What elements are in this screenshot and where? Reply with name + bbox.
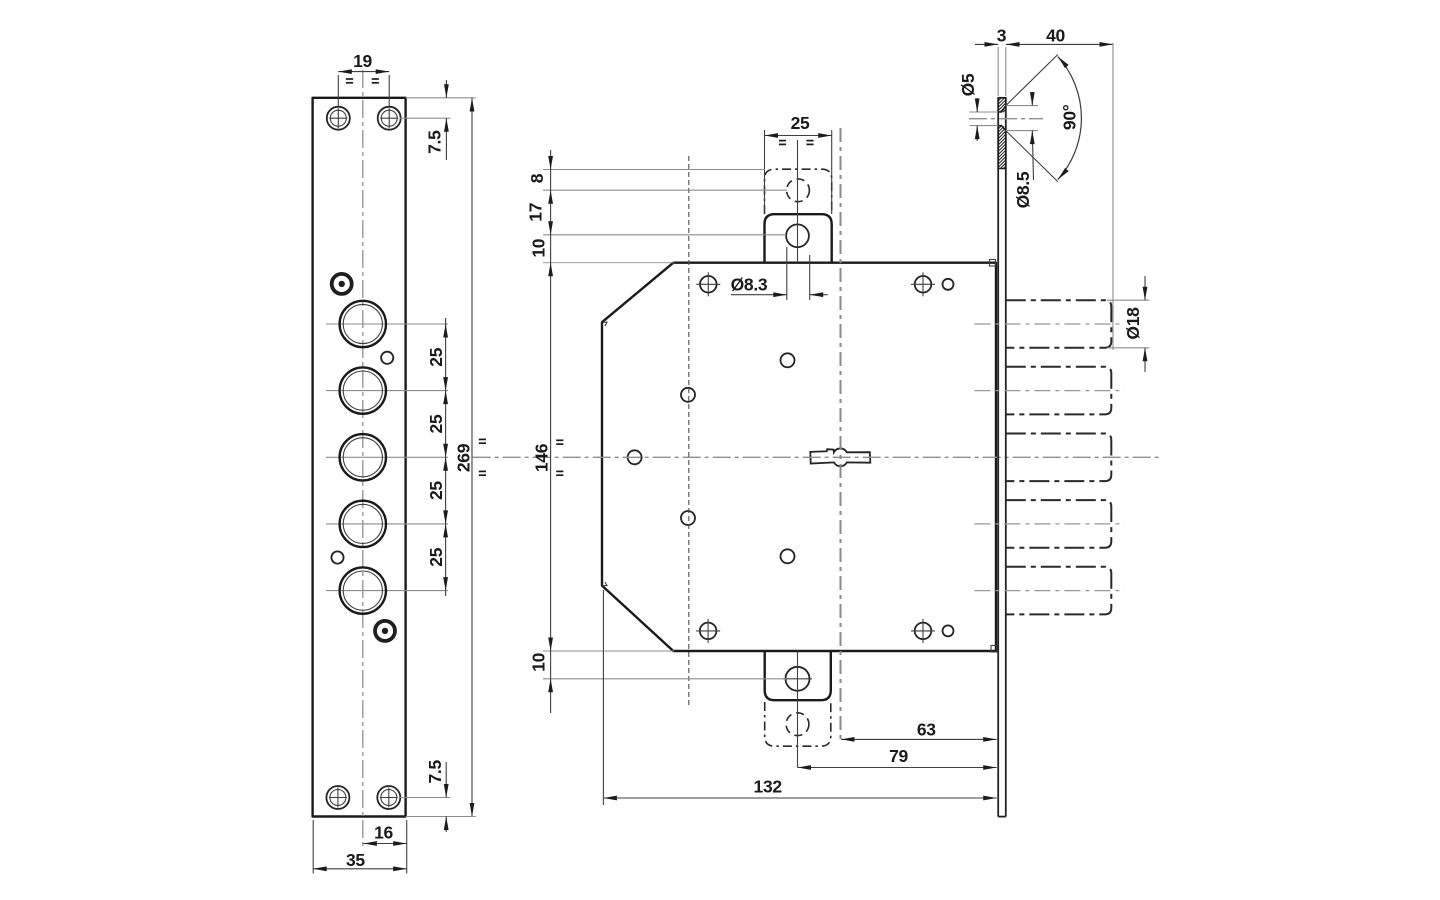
double-bitted key hole: [810, 448, 870, 466]
dimension 269: [453, 98, 486, 817]
screw hole top-left: [327, 107, 350, 130]
screw hole bottom-left: [326, 786, 349, 809]
top fixing tab solid: [765, 214, 832, 263]
svg-text:10: 10: [529, 238, 549, 257]
bottom phantom tab hole: [786, 713, 809, 736]
small hole top right: [943, 279, 954, 290]
pin hole with dot lower: [375, 621, 395, 641]
countersink section lower hatch: [998, 126, 1006, 169]
svg-text:25: 25: [426, 547, 446, 566]
dimension 16: [363, 820, 406, 848]
deadbolt 2: [974, 367, 1124, 415]
corner notch top right: [990, 260, 996, 267]
svg-text:10: 10: [529, 652, 549, 671]
countersink 90 degree fan line upper: [1006, 55, 1058, 106]
svg-text:79: 79: [889, 746, 908, 766]
svg-text:Ø8.5: Ø8.5: [1013, 171, 1033, 208]
bottom tab centerline: [797, 651, 799, 768]
faceplate side outline: [998, 98, 1006, 817]
lock case body outline: [602, 263, 996, 651]
cylinder hole 3: [340, 434, 386, 480]
bottom fixing tab solid: [765, 651, 831, 700]
deadbolt 3: [1006, 434, 1112, 482]
svg-text:132: 132: [754, 777, 783, 797]
bottom phantom tab: [765, 702, 831, 746]
svg-text:16: 16: [374, 823, 393, 843]
key axis vertical centerline: [840, 128, 842, 739]
svg-text:146: 146: [532, 443, 552, 472]
svg-text:25: 25: [426, 347, 446, 366]
cylinder hole 2: [340, 367, 386, 413]
small hole lower left: [331, 551, 343, 563]
svg-text:25: 25: [426, 414, 446, 433]
case screw hole bottom left: [696, 619, 720, 643]
svg-text:17: 17: [526, 203, 546, 222]
top phantom tab hole: [787, 179, 810, 202]
top phantom tab: [765, 169, 832, 214]
dimension chain 8 17 10 and 146: [526, 150, 554, 713]
corner notch bottom right: [991, 646, 997, 653]
svg-text:35: 35: [346, 850, 365, 870]
chamfer hook top left: [602, 322, 607, 326]
screw hole bottom-right: [377, 786, 400, 809]
svg-text:7.5: 7.5: [425, 130, 445, 154]
90 degree arc: [1058, 57, 1082, 180]
main horizontal centerline: [473, 456, 1160, 458]
svg-text:19: 19: [353, 51, 372, 71]
dimension 146: [532, 440, 564, 475]
cylinder hole 1: [340, 301, 386, 347]
small hole bottom right: [943, 625, 954, 636]
countersink section upper hatch: [998, 98, 1006, 112]
extension lines left side: [543, 170, 787, 679]
dimension 7.5 bottom: [400, 760, 476, 832]
svg-text:25: 25: [791, 113, 810, 133]
dimension 3: [975, 26, 1007, 97]
svg-text:90°: 90°: [1060, 104, 1080, 130]
countersink centerline: [969, 118, 1043, 120]
dimension dia 8.3: [731, 247, 828, 300]
dimension dia 8.5: [1006, 92, 1038, 208]
faceplate vertical centerline: [362, 70, 364, 848]
dimension 40: [1006, 26, 1113, 351]
dimension 79: [798, 746, 997, 770]
top tab centerline: [797, 140, 799, 263]
gear hole 2: [681, 388, 695, 402]
gear hole 3: [628, 450, 642, 464]
dimension 35: [313, 820, 407, 874]
gear hole 5: [781, 549, 795, 563]
faceplate outline: [313, 98, 406, 817]
gear hole 1: [781, 353, 795, 367]
top fixing tab hole: [786, 224, 809, 247]
svg-text:7.5: 7.5: [425, 760, 445, 784]
dimension 19: [338, 51, 389, 106]
vertical dashed line through case: [688, 156, 690, 708]
deadbolt 1: [974, 300, 1124, 348]
dimension dia 18: [1107, 276, 1149, 372]
dimension 63: [841, 719, 997, 742]
dimension 132: [603, 590, 996, 805]
svg-text:Ø5: Ø5: [958, 73, 978, 96]
cylinder hole centerlines: [326, 324, 448, 591]
svg-text:269: 269: [453, 443, 473, 472]
bottom fixing tab hole: [786, 667, 810, 691]
deadbolt 5: [974, 567, 1124, 615]
countersink 90 degree fan line lower: [1006, 131, 1058, 182]
svg-text:25: 25: [426, 481, 446, 500]
pin hole with dot upper: [332, 274, 352, 294]
svg-text:Ø18: Ø18: [1123, 307, 1143, 340]
cylinder hole 4: [340, 501, 386, 547]
deadbolt 4: [974, 500, 1124, 548]
dimension 7.5 top: [400, 80, 476, 160]
svg-text:8: 8: [527, 173, 547, 183]
chamfer hook bottom left: [602, 582, 607, 586]
gear hole 4: [681, 511, 695, 525]
case screw hole top left: [696, 272, 720, 296]
dimension 25 top tab: [765, 113, 832, 214]
screw hole top-right: [378, 107, 401, 130]
case screw hole bottom right: [911, 619, 935, 643]
svg-text:40: 40: [1046, 26, 1065, 46]
small hole upper right: [381, 352, 393, 364]
svg-text:3: 3: [997, 26, 1007, 46]
case screw hole top right: [911, 272, 935, 296]
svg-text:63: 63: [917, 719, 936, 739]
dimension dia 5: [958, 73, 998, 141]
dimension chain 25 x4: [426, 318, 448, 596]
svg-text:Ø8.3: Ø8.3: [731, 275, 768, 295]
cylinder hole 5: [340, 567, 386, 613]
